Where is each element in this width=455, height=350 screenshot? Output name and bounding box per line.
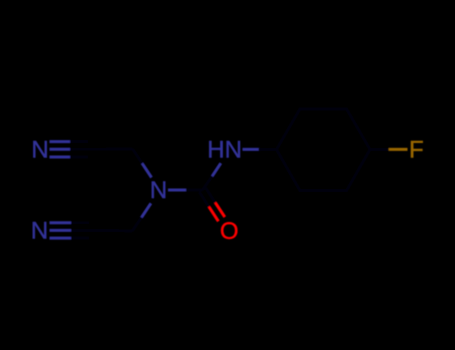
svg-text:N: N	[150, 177, 167, 204]
svg-text:O: O	[220, 218, 239, 245]
benzene ring	[277, 109, 371, 191]
wire CH2a-N3 bright half	[142, 163, 151, 177]
wire N3-C3 faint half	[186, 189, 202, 192]
wire N4-ring faint half	[259, 148, 277, 151]
wire CH2b-N3 bright half	[142, 203, 151, 217]
wire N4-C3 faint half	[203, 176, 213, 190]
wire CH2a-N3 faint half	[133, 149, 142, 163]
svg-text:F: F	[409, 137, 424, 164]
wire ring-F faint half	[370, 148, 389, 151]
svg-text:N: N	[31, 218, 48, 245]
nitrile N1 triple bond bright half	[50, 142, 71, 157]
wire N4-ring bright half	[243, 148, 260, 151]
nitrile N1 triple bond carbon half	[70, 142, 95, 157]
wire CH2b-N3 faint half	[132, 217, 141, 231]
wire N3-C3 bright half	[168, 189, 186, 192]
svg-text:HN: HN	[207, 137, 242, 164]
svg-text:N: N	[31, 137, 48, 164]
wire ring-F bright gold half	[389, 148, 408, 151]
wire N4-C3 bright half	[212, 163, 221, 176]
carbonyl C3=O double bond red oxygen halves	[209, 203, 225, 222]
carbonyl C3=O double bond faint carbon halves	[199, 188, 215, 207]
wire C2-CH2b	[97, 229, 133, 233]
nitrile N2 triple bond bright half	[50, 223, 72, 238]
nitrile N2 triple bond carbon half	[71, 223, 97, 238]
wire C1-CH2a	[95, 148, 133, 151]
